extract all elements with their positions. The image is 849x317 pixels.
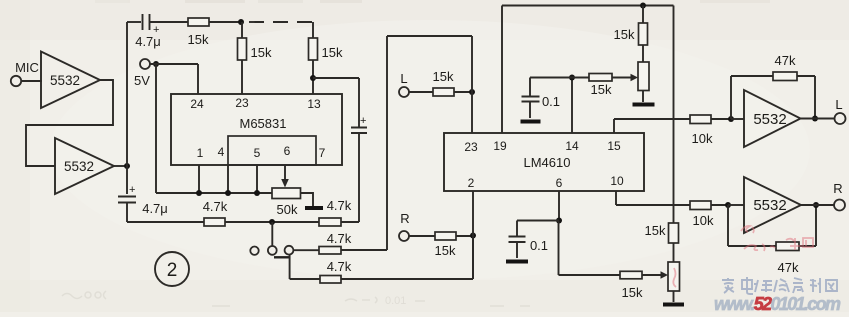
- svg-text:15k: 15k: [645, 223, 666, 238]
- svg-text:15k: 15k: [188, 32, 209, 47]
- svg-text:23: 23: [464, 140, 478, 154]
- svg-text:50k: 50k: [277, 202, 298, 217]
- svg-text:5532: 5532: [64, 159, 94, 174]
- svg-text:13: 13: [307, 97, 321, 111]
- svg-text:23: 23: [235, 96, 249, 110]
- svg-text:4: 4: [218, 145, 225, 159]
- svg-text:2: 2: [468, 176, 475, 190]
- svg-text:0.01: 0.01: [385, 295, 406, 307]
- svg-text:15k: 15k: [435, 243, 456, 258]
- svg-text:M65831: M65831: [240, 116, 287, 131]
- svg-text:4.7μ: 4.7μ: [142, 201, 168, 216]
- svg-text:4.7k: 4.7k: [203, 199, 228, 214]
- svg-text:15k: 15k: [433, 69, 454, 84]
- svg-text:+: +: [129, 184, 135, 196]
- svg-text:19: 19: [493, 139, 507, 153]
- svg-text:MIC: MIC: [15, 60, 39, 75]
- svg-text:www.520101.com: www.520101.com: [714, 294, 841, 312]
- svg-text:R: R: [400, 211, 409, 226]
- svg-text:15k: 15k: [614, 27, 635, 42]
- svg-text:14: 14: [565, 139, 579, 153]
- svg-text:LM4610: LM4610: [524, 155, 571, 170]
- svg-text:4.7k: 4.7k: [327, 259, 352, 274]
- svg-text:6: 6: [284, 144, 291, 158]
- svg-text:47k: 47k: [778, 260, 799, 275]
- svg-text:7: 7: [319, 146, 326, 160]
- svg-text:10k: 10k: [692, 131, 713, 146]
- svg-text:L: L: [400, 71, 407, 86]
- svg-text:24: 24: [190, 97, 204, 111]
- svg-text:10k: 10k: [693, 213, 714, 228]
- svg-text:5532: 5532: [50, 73, 80, 88]
- svg-text:R: R: [833, 181, 842, 196]
- svg-text:0.1: 0.1: [542, 94, 560, 109]
- svg-text:15k: 15k: [622, 285, 643, 300]
- svg-text:1: 1: [197, 146, 204, 160]
- svg-text:15k: 15k: [591, 82, 612, 97]
- svg-text:L: L: [835, 97, 842, 112]
- svg-text:15k: 15k: [322, 45, 343, 60]
- svg-text:6: 6: [556, 176, 563, 190]
- svg-text:10: 10: [610, 174, 624, 188]
- svg-text:15: 15: [607, 139, 621, 153]
- svg-text:5532: 5532: [753, 111, 786, 128]
- svg-text:4.7k: 4.7k: [327, 198, 352, 213]
- svg-text:0.1: 0.1: [530, 238, 548, 253]
- svg-text:+: +: [360, 115, 366, 127]
- svg-text:2: 2: [167, 260, 178, 281]
- svg-text:5: 5: [254, 146, 261, 160]
- svg-text:4.7k: 4.7k: [327, 231, 352, 246]
- svg-text:47k: 47k: [775, 53, 796, 68]
- svg-text:5532: 5532: [753, 197, 786, 214]
- svg-text:5V: 5V: [134, 73, 150, 88]
- svg-text:4.7μ: 4.7μ: [135, 34, 161, 49]
- svg-text:15k: 15k: [251, 45, 272, 60]
